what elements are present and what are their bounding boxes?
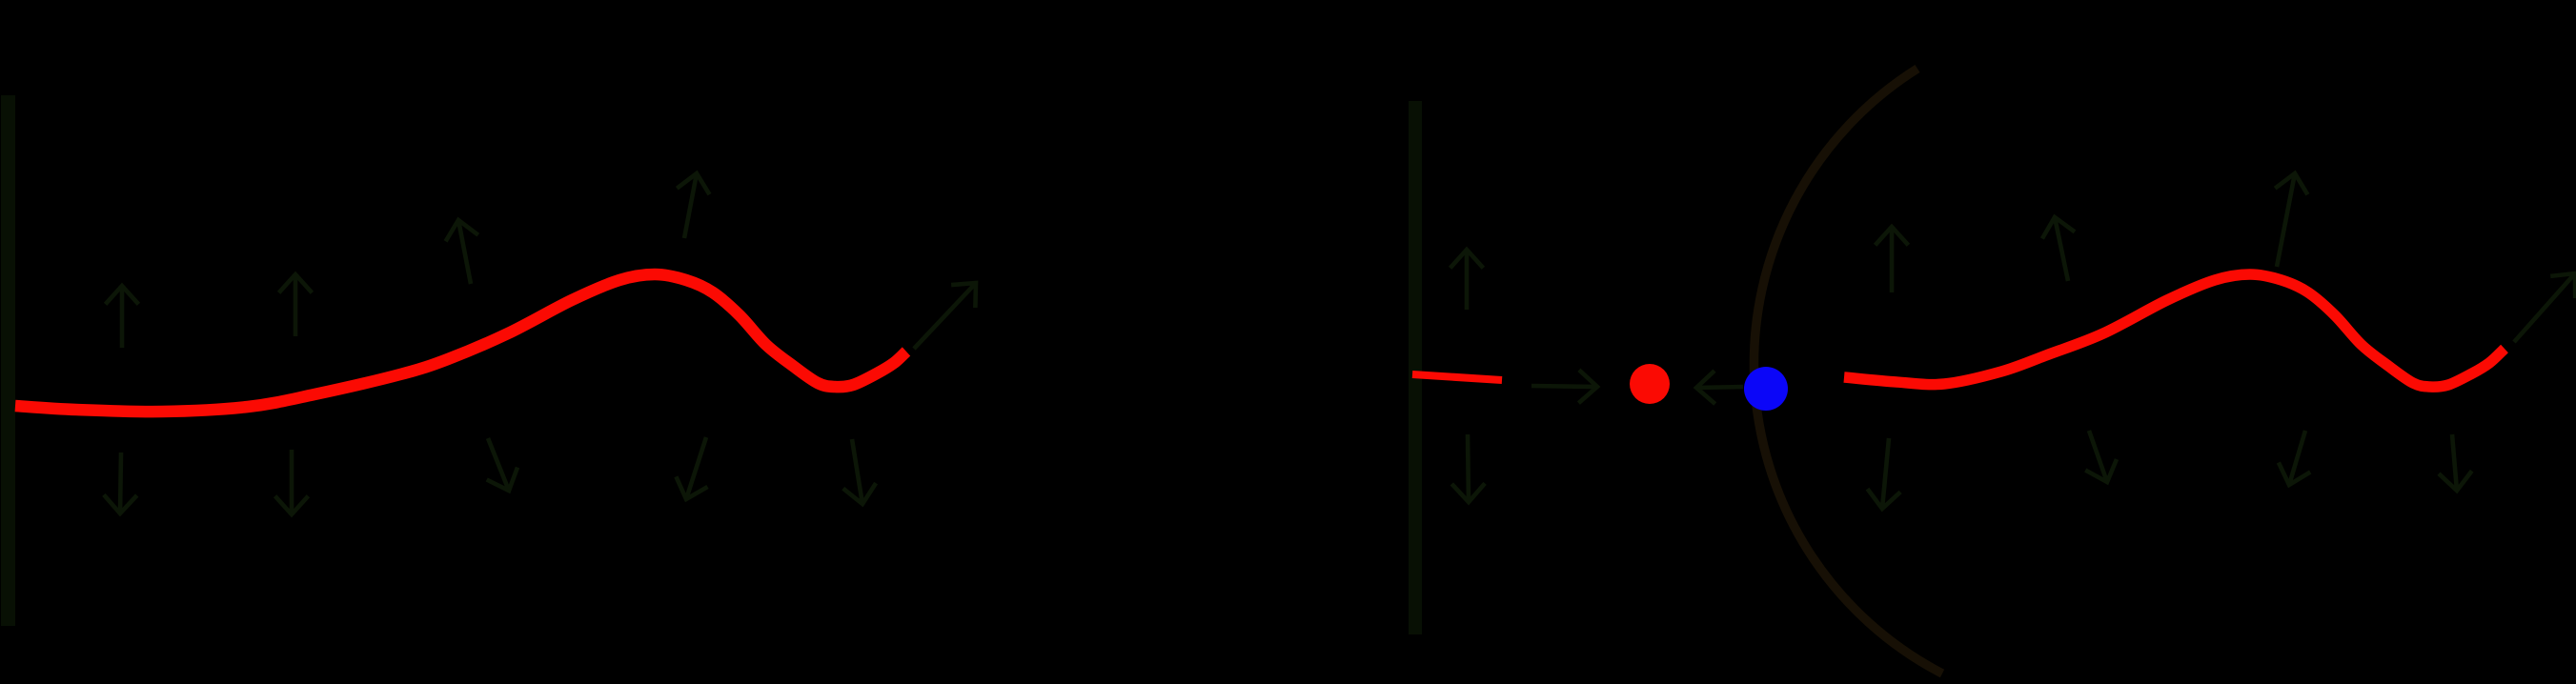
- red dot: [1630, 364, 1670, 404]
- right wall down arrow: [1451, 434, 1485, 502]
- red stub segment at right wall: [1412, 374, 1502, 380]
- left down arrow 1: [104, 453, 137, 513]
- right curve-end direction arrow: [2514, 273, 2575, 342]
- left down arrow 2: [275, 450, 309, 514]
- right up arrow b: [2042, 217, 2075, 281]
- left curve-end direction arrow: [914, 283, 976, 349]
- left wall (fixed end): [1, 95, 15, 626]
- left down arrow 3: [487, 438, 517, 491]
- left red wave pulse curve: [15, 274, 906, 412]
- left up arrow 1: [106, 286, 139, 348]
- right down arrow a: [1868, 438, 1901, 509]
- right wall (fixed end): [1409, 101, 1422, 634]
- rightward arrow: [1531, 370, 1597, 403]
- large dark arc (circular wavefront): [1754, 69, 1942, 674]
- right down arrow d: [2439, 434, 2472, 491]
- left down arrow 5: [843, 439, 876, 504]
- right up arrow c: [2275, 173, 2307, 267]
- right down arrow b: [2085, 431, 2117, 482]
- left up arrow 4: [677, 173, 709, 238]
- blue dot: [1744, 367, 1788, 411]
- left up arrow 2: [279, 274, 313, 336]
- left down arrow 4: [676, 437, 707, 499]
- right up arrow a: [1876, 227, 1909, 292]
- right wall up arrow: [1450, 250, 1484, 310]
- left up arrow 3: [446, 220, 478, 284]
- right down arrow c: [2279, 431, 2310, 485]
- right red wave pulse curve: [1844, 274, 2505, 387]
- leftward arrow: [1696, 371, 1743, 404]
